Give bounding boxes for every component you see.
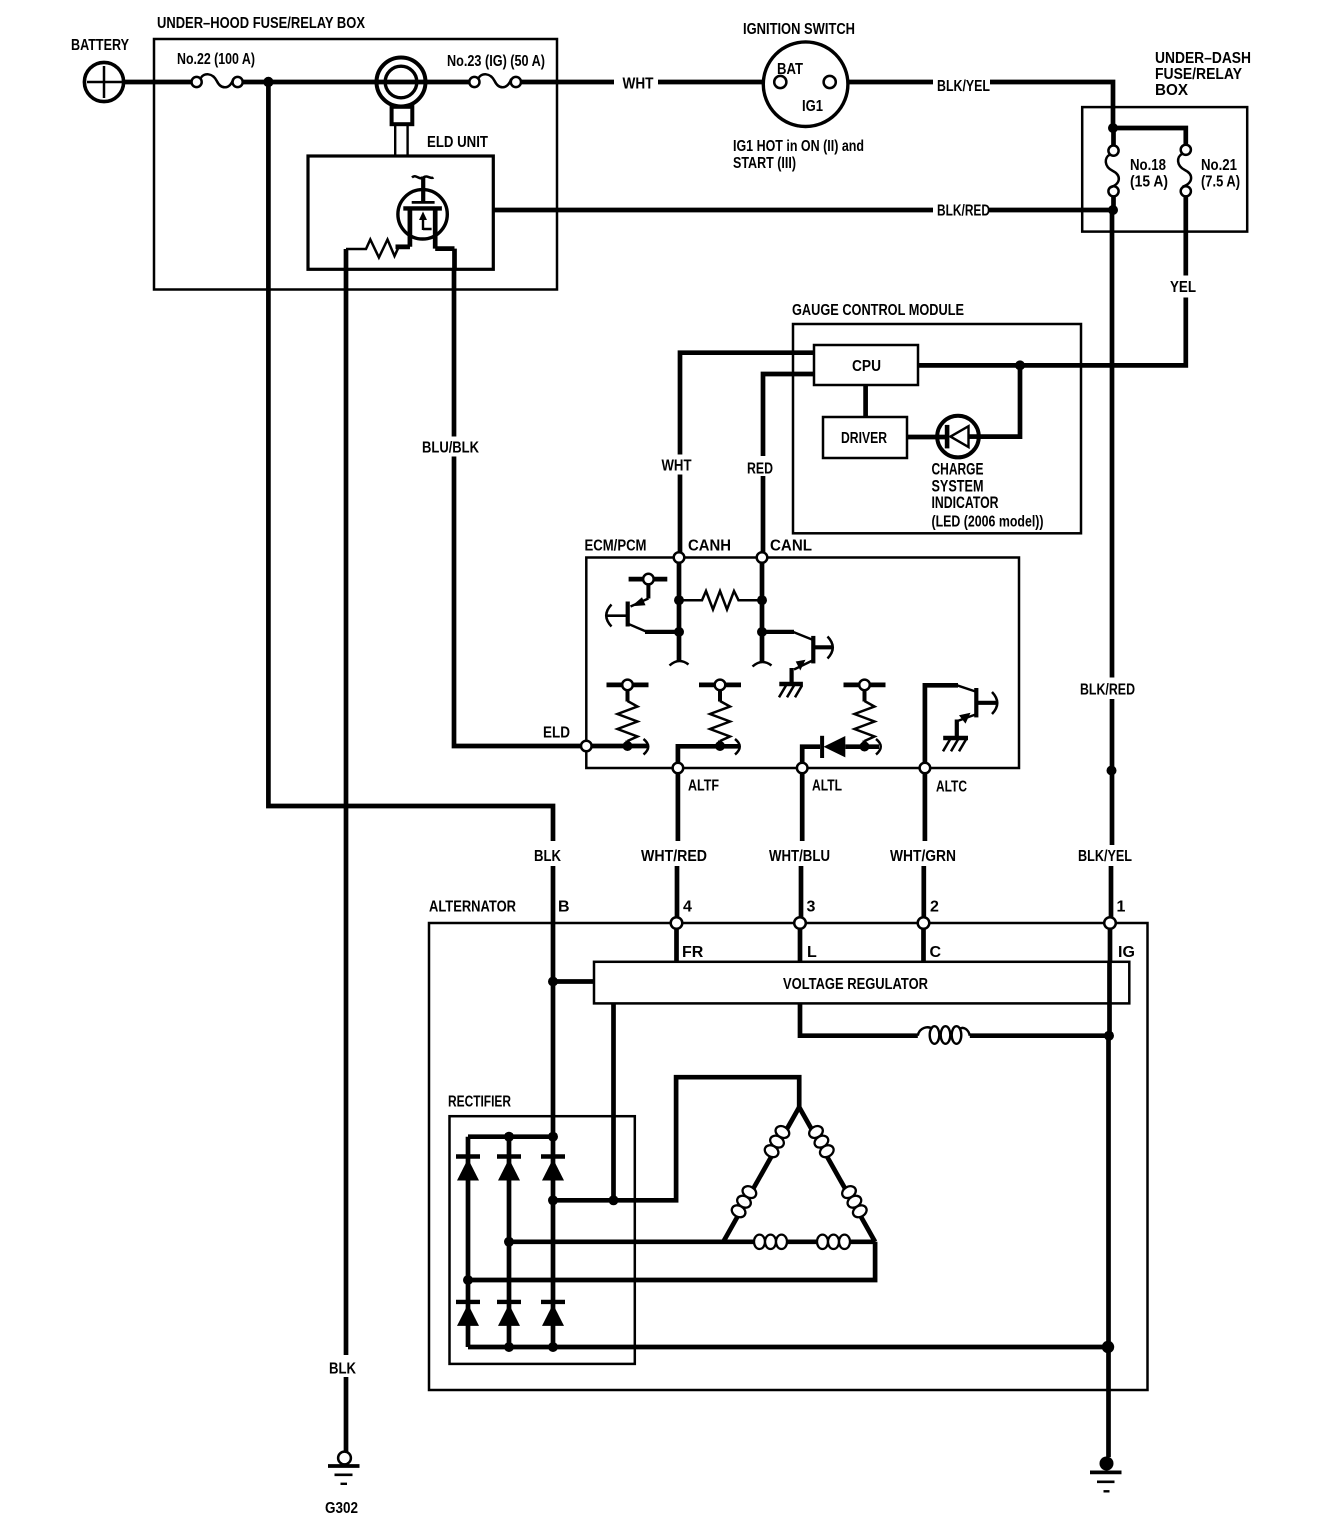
svg-text:WHT/RED: WHT/RED [641, 848, 707, 865]
svg-text:3: 3 [807, 899, 816, 916]
svg-text:G302: G302 [325, 1500, 358, 1514]
svg-text:No.22 (100 A): No.22 (100 A) [177, 51, 255, 68]
svg-text:UNDER–HOOD FUSE/RELAY BOX: UNDER–HOOD FUSE/RELAY BOX [157, 15, 365, 32]
svg-text:1: 1 [1117, 899, 1126, 916]
svg-text:RED: RED [747, 461, 773, 478]
svg-text:ELD: ELD [543, 725, 570, 742]
svg-text:BLK/YEL: BLK/YEL [1078, 848, 1132, 865]
svg-text:BLU/BLK: BLU/BLK [422, 440, 479, 457]
svg-text:WHT: WHT [623, 76, 654, 93]
svg-text:(7.5 A): (7.5 A) [1201, 174, 1240, 191]
svg-text:No.18: No.18 [1130, 157, 1166, 174]
svg-text:CANH: CANH [688, 538, 731, 555]
svg-text:SYSTEM: SYSTEM [932, 477, 984, 495]
svg-text:IG1: IG1 [802, 98, 823, 115]
svg-text:BLK/YEL: BLK/YEL [937, 78, 990, 95]
svg-text:WHT: WHT [662, 458, 692, 475]
svg-text:WHT/GRN: WHT/GRN [890, 848, 956, 865]
svg-text:ELD UNIT: ELD UNIT [427, 134, 488, 151]
svg-text:L: L [807, 944, 817, 961]
svg-text:ECM/PCM: ECM/PCM [585, 538, 647, 555]
svg-text:C: C [930, 944, 942, 961]
svg-text:BOX: BOX [1155, 82, 1188, 99]
svg-text:4: 4 [683, 899, 692, 916]
svg-text:YEL: YEL [1170, 279, 1196, 296]
svg-text:START (III): START (III) [733, 155, 796, 172]
svg-text:ALTC: ALTC [936, 779, 967, 796]
svg-text:(15 A): (15 A) [1130, 174, 1168, 191]
svg-text:ALTL: ALTL [812, 778, 842, 795]
svg-text:BATTERY: BATTERY [71, 37, 129, 54]
svg-text:IG: IG [1118, 944, 1135, 961]
svg-text:DRIVER: DRIVER [841, 430, 887, 447]
svg-text:FUSE/RELAY: FUSE/RELAY [1155, 66, 1242, 83]
svg-text:No.21: No.21 [1201, 157, 1237, 174]
svg-text:(LED (2006 model)): (LED (2006 model)) [932, 514, 1044, 531]
svg-text:BLK: BLK [534, 848, 561, 865]
svg-text:BLK/RED: BLK/RED [1080, 682, 1135, 699]
svg-text:GAUGE CONTROL MODULE: GAUGE CONTROL MODULE [792, 302, 964, 319]
svg-text:WHT/BLU: WHT/BLU [769, 848, 830, 865]
svg-text:BLK/RED: BLK/RED [937, 203, 990, 220]
svg-text:2: 2 [930, 899, 939, 916]
svg-text:IGNITION SWITCH: IGNITION SWITCH [743, 21, 855, 38]
svg-text:VOLTAGE REGULATOR: VOLTAGE REGULATOR [783, 976, 928, 993]
svg-text:INDICATOR: INDICATOR [932, 494, 999, 512]
svg-text:CANL: CANL [770, 538, 812, 555]
svg-text:IG1 HOT in ON (II) and: IG1 HOT in ON (II) and [733, 138, 864, 155]
svg-text:No.23 (IG) (50 A): No.23 (IG) (50 A) [447, 53, 545, 70]
svg-text:ALTF: ALTF [688, 778, 719, 795]
svg-text:ALTERNATOR: ALTERNATOR [429, 899, 516, 916]
svg-text:UNDER–DASH: UNDER–DASH [1155, 50, 1251, 67]
svg-text:B: B [558, 899, 570, 916]
svg-text:CPU: CPU [852, 358, 881, 375]
svg-text:RECTIFIER: RECTIFIER [448, 1094, 511, 1111]
svg-text:BLK: BLK [329, 1361, 356, 1378]
svg-text:CHARGE: CHARGE [932, 461, 984, 479]
svg-text:BAT: BAT [777, 61, 803, 78]
svg-text:FR: FR [682, 944, 704, 961]
